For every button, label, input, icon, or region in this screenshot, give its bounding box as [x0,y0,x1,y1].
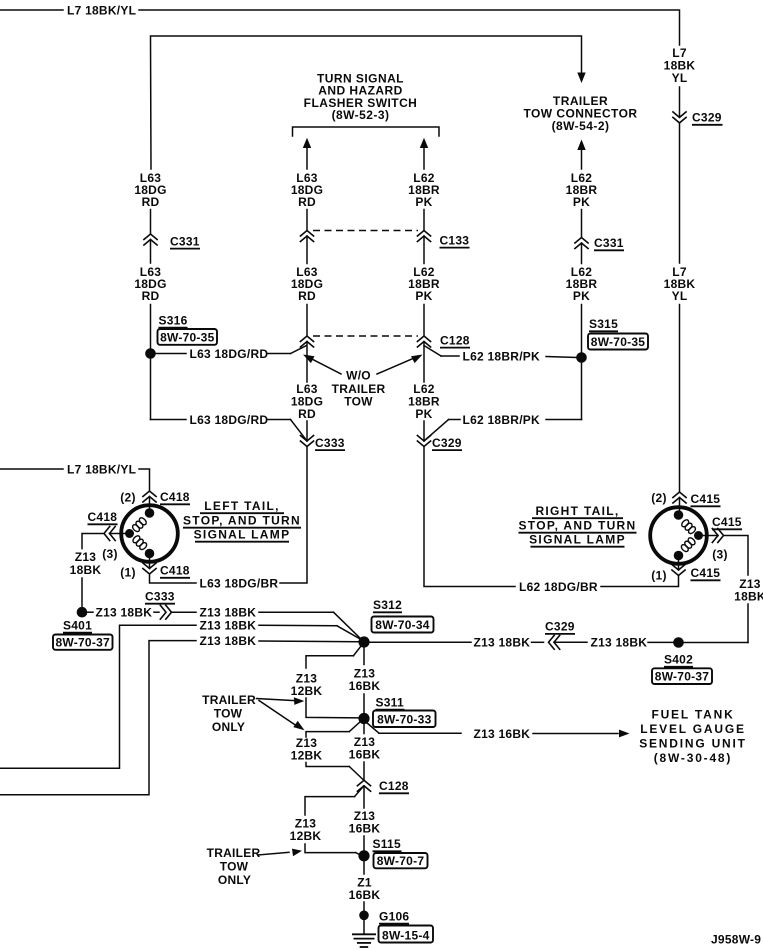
connector C329 (center-right) [417,435,462,450]
wire C418 pin3 to S401 [82,534,104,608]
arrow into flasher (right) [420,138,428,169]
svg-text:Z13 18BK: Z13 18BK [200,619,257,633]
connector C418 pin 3 label [88,510,118,524]
svg-text:L7 18BK/YL: L7 18BK/YL [67,462,136,476]
wire center-left C128 to C333 [306,342,308,442]
wire label L62 18BR PK (right col) [566,171,598,209]
wire L7 18BK/YL top feed [0,10,680,45]
svg-text:TOW: TOW [344,394,373,408]
svg-text:L7 18BK/YL: L7 18BK/YL [67,3,136,17]
svg-text:16BK: 16BK [349,679,381,693]
arrow w/o trailer tow to right wire [377,355,423,375]
svg-text:C329: C329 [692,111,722,125]
svg-text:SENDING UNIT: SENDING UNIT [639,737,747,751]
wire label Z13 16BK (C128-S115) [349,809,381,836]
svg-text:C418: C418 [160,490,190,504]
connector C333 label (inline) [145,589,175,603]
wire label L63 18DG RD (center-left row3) [291,382,323,421]
splice S311 label [373,695,436,727]
wire label L62 18BR PK (right col row2) [566,265,598,303]
lamp right tail stop turn (bulb) [650,507,707,564]
svg-text:L63 18DG/BR: L63 18DG/BR [200,576,279,590]
node L7 label right column [664,46,696,85]
connector C415 pin 2 chevrons [672,492,720,506]
wire S316 to center-left L63 18DG/RD [156,346,307,354]
wire Z13 18BK line C from left edge [0,641,359,795]
trailer tow connector heading [523,94,637,133]
svg-text:(3): (3) [102,547,117,561]
wire label Z13 12BK (branch A) [291,672,323,699]
wire S312 down to S311 [363,648,365,714]
wire into S402 [648,641,673,643]
wire S312 to C329 right [370,641,544,643]
svg-text:8W-70-37: 8W-70-37 [655,669,710,683]
wire right col C331 to S315 [581,243,583,353]
svg-text:RIGHT TAIL,: RIGHT TAIL, [535,504,619,518]
wire right lamp pin1 down [678,557,680,571]
svg-text:C415: C415 [712,515,742,529]
splice S401 label [53,618,113,650]
connector C329 label (inline) [545,620,575,634]
svg-text:(8W-30-48): (8W-30-48) [654,751,732,765]
svg-text:RD: RD [142,195,160,209]
svg-text:C331: C331 [594,236,624,250]
splice S401 [77,607,88,618]
ground symbol [352,920,376,947]
connector C333 chevrons (inline horizontal) [154,605,172,620]
svg-text:18BK: 18BK [70,563,102,577]
connector C133 chevrons (center-left) [300,231,314,243]
svg-text:18BK: 18BK [734,590,763,604]
svg-text:8W-70-37: 8W-70-37 [55,635,110,649]
svg-text:C329: C329 [545,620,575,634]
wire S316 lower branch L63 18DG/RD [151,359,308,441]
wire center-left col to C133 [306,210,308,231]
svg-text:C415: C415 [691,492,721,506]
splice S402 label [652,653,712,685]
node L7 18BK YL label (mid right) [664,265,696,303]
svg-text:C133: C133 [440,233,470,247]
wire center-right C133 to C128 [423,236,425,336]
wire S315 to center-right L62 18BR/PK [424,346,577,358]
svg-text:S316: S316 [159,313,188,327]
connector C331 (left) [143,234,200,249]
svg-text:8W-70-34: 8W-70-34 [375,618,430,632]
svg-text:16BK: 16BK [349,888,381,902]
wire L7 18BK/YL to left lamp [0,469,150,491]
wire lamp pin 3 stub [110,533,126,535]
wire C333 to S312 (line A) [172,612,363,640]
svg-text:W/O: W/O [346,369,371,383]
filament coil lower (left lamp) [132,535,148,551]
wire C128 down to S115 [363,786,365,851]
ground G106 label [379,909,434,942]
svg-text:(8W-52-3): (8W-52-3) [332,108,390,122]
splice S115 label [373,837,428,868]
wire center-left C133 to C128 [306,236,308,336]
connector C133 dashed link [313,230,418,232]
svg-text:TRAILER: TRAILER [207,846,261,860]
splice S311 [358,713,369,724]
svg-text:(2): (2) [120,491,135,505]
svg-text:S311: S311 [376,695,404,709]
wire lamp right pin 3 stub [703,535,718,537]
splice S402 [673,637,684,648]
fuel tank level gauge sending unit heading [639,708,747,766]
wire label Z13 18BK (right col) [734,577,763,604]
arrow trailer tow only to branch B [259,701,305,731]
connector C128 (lower inline) [357,779,409,793]
svg-text:(1): (1) [120,566,135,580]
svg-text:PK: PK [415,289,432,303]
wire S315 lower branch L62 18BR/PK [424,363,582,441]
svg-text:Z13 16BK: Z13 16BK [474,727,531,741]
splice S115 [358,850,369,861]
right tail stop and turn signal lamp heading [519,504,637,547]
svg-text:12BK: 12BK [291,749,323,763]
svg-text:STOP, AND TURN: STOP, AND TURN [519,519,637,533]
arrow trailer tow only to branch C [258,849,302,857]
svg-text:PK: PK [415,195,432,209]
svg-text:ONLY: ONLY [212,720,245,734]
wire Z13 18BK S401 to C333 [88,611,94,613]
svg-text:L62 18BR/PK: L62 18BR/PK [463,349,541,363]
wire label L63 18DG RD (center-left row2) [291,265,323,303]
wire label Z13 12BK (branch C) [290,817,322,844]
arrow down to trailer tow connector [577,73,585,84]
svg-text:RD: RD [298,289,316,303]
w/o trailer tow note [332,369,386,409]
svg-text:8W-70-35: 8W-70-35 [591,335,646,349]
splice S312 label [372,598,434,633]
svg-text:(1): (1) [651,569,666,583]
trailer tow only note (upper) [202,693,256,734]
lamp left tail stop turn (bulb) [121,505,178,562]
connector C418 pin 2 chevrons [142,490,190,504]
svg-text:C418: C418 [160,564,190,578]
svg-text:C418: C418 [88,510,118,524]
svg-text:8W-70-35: 8W-70-35 [160,330,215,344]
svg-text:12BK: 12BK [291,684,323,698]
wire Z13 12BK branch C (trailer tow) [305,787,363,856]
svg-text:Z13 18BK: Z13 18BK [591,636,648,650]
wire label Z13 18BK (S401 col) [70,550,102,577]
filament coil upper (right lamp) [680,519,696,535]
svg-text:C333: C333 [145,589,175,603]
svg-text:S115: S115 [373,837,401,851]
wire left col C331 to S316 [150,240,152,349]
wire S311 down to C128 [363,724,365,780]
svg-text:RD: RD [298,407,316,421]
svg-text:C333: C333 [315,436,345,450]
wire into left lamp pin 2 [149,497,151,513]
svg-text:ONLY: ONLY [218,873,251,887]
trailer tow only note (lower) [207,846,261,887]
arrow up into trailer tow connector [577,140,585,170]
wire L62 18DG/BR lamp1 to C329 column [424,447,679,587]
wire C329 to S402 [554,641,587,643]
arrow trailer tow only to branch A [257,697,305,705]
svg-text:J958W-9: J958W-9 [711,933,761,947]
splice S316 [145,348,156,359]
connector C415 pin 3 chevrons [712,528,724,543]
svg-text:LEVEL GAUGE: LEVEL GAUGE [640,722,746,736]
svg-text:Z13 18BK: Z13 18BK [474,636,531,650]
svg-text:(8W-54-2): (8W-54-2) [552,119,610,133]
svg-text:(3): (3) [712,548,727,562]
svg-text:RD: RD [298,195,316,209]
svg-text:L63 18DG/RD: L63 18DG/RD [190,413,269,427]
svg-text:(2): (2) [651,491,666,505]
ground G106 node [359,911,369,921]
filament coil upper (left lamp) [131,517,147,533]
wire label L63 18DG RD (left col) [134,171,166,209]
svg-text:12BK: 12BK [290,829,322,843]
connector C329 chevrons (inline horizontal) [549,635,561,650]
wire right col to C331 [581,210,583,238]
svg-text:PK: PK [415,407,432,421]
splice S312 [358,636,369,647]
wire L63 18DG/BR lamp1 to C333 column [150,447,308,584]
svg-text:RD: RD [142,289,160,303]
svg-text:8W-70-33: 8W-70-33 [377,712,432,726]
wire center-right C128 to C329 [423,342,425,442]
svg-text:FUEL TANK: FUEL TANK [651,708,734,722]
connector C133 chevrons (center-right) [417,231,470,248]
wire lamp pin1 down [149,554,151,569]
svg-text:C128: C128 [379,779,409,793]
wire label Z13 16BK (S312-S311) [349,666,381,693]
wire label L62 18BR PK (center-right col) [408,171,440,209]
arrow into flasher (left) [303,138,311,169]
turn signal and hazard flasher switch heading [304,72,418,123]
svg-text:G106: G106 [379,909,409,923]
wire L7 below C329 [679,123,681,263]
wire label Z13 16BK (S311-C128) [349,735,381,762]
connector C329 (top right, in-line) [672,111,722,125]
connector C418 pin 1 chevrons [142,563,190,578]
svg-text:S312: S312 [373,598,402,612]
arrow w/o trailer tow to left wire [303,355,341,375]
svg-text:C128: C128 [440,333,470,347]
svg-text:TOW: TOW [220,860,249,874]
connector C418 pin 3 chevrons [104,526,116,541]
wire L7 down to C329 [679,87,681,117]
filament coil lower (right lamp) [680,537,696,553]
svg-text:S401: S401 [63,618,92,632]
svg-text:Z13 18BK: Z13 18BK [200,634,257,648]
connector C333 (center-left) [300,435,345,450]
svg-text:8W-15-4: 8W-15-4 [382,928,430,942]
arrow to fuel tank sending unit [619,730,630,738]
wire label L62 18BR PK (center-right row3) [408,382,440,421]
svg-text:L63 18DG/RD: L63 18DG/RD [190,347,269,361]
svg-text:S315: S315 [589,317,618,331]
wire center-right col to C133 [423,210,425,231]
connector C128 chevrons (center-right) [417,333,470,347]
svg-text:C331: C331 [170,234,200,248]
connector C415 pin 3 label [712,515,742,529]
splice S316 label [158,313,218,344]
wire Z13 12BK branch B (trailer tow) [306,722,363,780]
wire horizontal feed y=36 [151,36,582,169]
svg-text:YL: YL [672,289,688,303]
wire label L62 18BR PK (center-right row2) [408,265,440,303]
connector C331 (right) [574,236,624,250]
svg-text:SIGNAL LAMP: SIGNAL LAMP [529,533,626,547]
svg-text:16BK: 16BK [349,822,381,836]
wire L7 down to right lamp [679,305,681,493]
svg-text:LEFT TAIL,: LEFT TAIL, [204,499,279,513]
wire label L63 18DG RD (left col row2) [134,265,166,303]
connector C415 pin 1 chevrons [671,564,720,580]
svg-text:Z13 18BK: Z13 18BK [200,606,257,620]
wire S115 down to G106 [363,861,365,910]
wire label Z1 16BK [349,876,381,903]
wire C415 pin3 right to Z13 column [724,536,749,643]
svg-text:PK: PK [573,195,590,209]
svg-text:STOP, AND TURN: STOP, AND TURN [183,514,301,528]
wire left col to C331 [150,210,152,235]
svg-text:TOW: TOW [214,707,243,721]
svg-text:PK: PK [573,289,590,303]
wire Z13 12BK branch A (trailer tow) [306,646,361,718]
svg-text:Z13: Z13 [75,550,97,564]
wire Z13 18BK line B from left edge [0,625,361,768]
wire S402 to right lamp column [684,642,748,644]
svg-text:TRAILER: TRAILER [202,693,256,707]
svg-text:16BK: 16BK [349,748,381,762]
wire label L63 18DG RD (center-left col) [291,171,323,209]
splice S315 label [588,317,648,350]
svg-text:C415: C415 [691,566,721,580]
connector C128 dashed link [313,335,418,337]
wire into right lamp pin 2 [679,498,681,515]
splice S315 [576,352,587,363]
wire S311 to fuel gauge [367,723,619,734]
left tail stop and turn signal lamp heading [183,499,301,542]
svg-text:L62 18BR/PK: L62 18BR/PK [463,413,541,427]
svg-text:L62 18DG/BR: L62 18DG/BR [519,580,598,594]
svg-text:Z13 18BK: Z13 18BK [96,606,153,620]
connector C128 chevrons (center-left) [300,336,314,348]
svg-text:YL: YL [672,71,688,85]
svg-text:S402: S402 [664,653,693,667]
svg-text:SIGNAL LAMP: SIGNAL LAMP [194,528,291,542]
svg-text:8W-70-7: 8W-70-7 [377,854,425,868]
svg-text:C329: C329 [432,436,462,450]
wire label Z13 12BK (branch B) [291,736,323,763]
flasher switch bracket [293,127,440,136]
